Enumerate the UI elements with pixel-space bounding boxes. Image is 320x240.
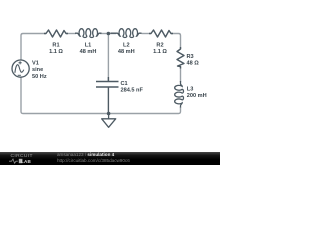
- capacitor C1: [96, 77, 119, 114]
- footer bar: [0, 152, 220, 166]
- attribution line 1: [57, 152, 114, 157]
- wire R2 to top-right corner: [171, 34, 181, 50]
- svg-text:L3: L3: [187, 87, 194, 93]
- label C1 284.5 nF: [121, 81, 144, 94]
- label R2 1.1 Ω: [153, 43, 167, 56]
- svg-text:V1: V1: [32, 60, 39, 66]
- svg-text:48 Ω: 48 Ω: [187, 61, 200, 67]
- svg-text:200 mH: 200 mH: [187, 93, 207, 99]
- svg-text:1.1 Ω: 1.1 Ω: [153, 49, 167, 55]
- resistor R2: [149, 30, 173, 37]
- node A junction dot: [107, 32, 111, 36]
- wire top-left segment: [21, 34, 46, 61]
- wire L1 to node A: [100, 33, 116, 35]
- voltage source V1: [12, 60, 29, 77]
- label R3 48 Ω: [187, 54, 200, 66]
- svg-text:1.1 Ω: 1.1 Ω: [49, 49, 63, 55]
- wire R1 to L1: [66, 33, 76, 35]
- svg-text:48 mH: 48 mH: [118, 49, 135, 55]
- label L1 48 mH: [80, 43, 97, 56]
- svg-text:L1: L1: [85, 43, 92, 49]
- ground: [102, 114, 116, 128]
- node B junction dot: [107, 112, 111, 116]
- label L3 200 mH: [187, 87, 207, 100]
- inductor L3: [175, 81, 184, 108]
- wire node A to C1: [107, 34, 109, 82]
- wire bottom left: [21, 77, 109, 113]
- svg-text:48 mH: 48 mH: [80, 49, 97, 55]
- svg-text:sine: sine: [32, 67, 43, 73]
- wire L2 to R2: [142, 33, 152, 35]
- CircuitLab logo: [11, 154, 33, 159]
- resistor R1: [44, 30, 68, 37]
- svg-text:L2: L2: [123, 43, 130, 49]
- svg-text:C1: C1: [121, 81, 128, 87]
- svg-text:50 Hz: 50 Hz: [32, 74, 47, 80]
- wire R3 to L3: [180, 67, 182, 83]
- inductor L1: [75, 29, 102, 38]
- svg-text:R1: R1: [52, 43, 59, 49]
- resistor R3: [177, 47, 184, 69]
- wire L3 to bottom-right corner: [109, 107, 181, 114]
- label V1 sine 50 Hz: [32, 60, 47, 80]
- svg-text:R2: R2: [156, 43, 163, 49]
- inductor L2: [111, 29, 142, 38]
- svg-text:284.5 nF: 284.5 nF: [121, 88, 144, 94]
- label R1 1.1 Ω: [49, 43, 63, 56]
- svg-text:R3: R3: [187, 54, 194, 60]
- attribution line 2: [57, 158, 130, 163]
- label L2 48 mH: [118, 43, 135, 56]
